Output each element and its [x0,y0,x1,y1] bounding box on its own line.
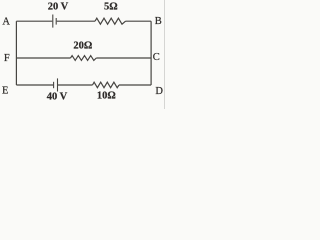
svg-text:F: F [4,53,10,64]
resistor 5ohm zigzag [95,18,126,24]
wire bottom E to battery [16,84,53,86]
svg-text:B: B [155,16,162,27]
svg-text:5Ω: 5Ω [104,2,118,13]
svg-text:20Ω: 20Ω [73,41,92,52]
svg-text:20 V: 20 V [48,2,69,13]
svg-text:E: E [2,86,8,97]
svg-text:D: D [155,86,163,97]
battery 20V long plate [52,15,54,28]
resistor 10ohm zigzag [93,82,120,88]
svg-text:40 V: 40 V [47,92,68,103]
svg-text:C: C [153,52,160,63]
battery 40V long plate [57,78,59,91]
battery 40V short plate [53,82,55,88]
wire middle F to resistor [16,57,70,59]
wire top battery to resistor [57,20,95,22]
resistor 20ohm zigzag [71,56,97,61]
wire top A to battery [16,20,52,22]
wire bottom battery to resistor [58,84,93,86]
wire middle resistor to C [96,57,151,59]
wire top resistor to B [126,20,152,22]
svg-text:A: A [2,16,10,27]
wire left vertical A-F-E [15,21,17,85]
wire bottom resistor to D [119,84,151,86]
battery 20V short plate [55,18,57,25]
wire right vertical B-C-D [150,21,152,85]
svg-text:10Ω: 10Ω [97,91,116,102]
page edge [164,0,166,109]
